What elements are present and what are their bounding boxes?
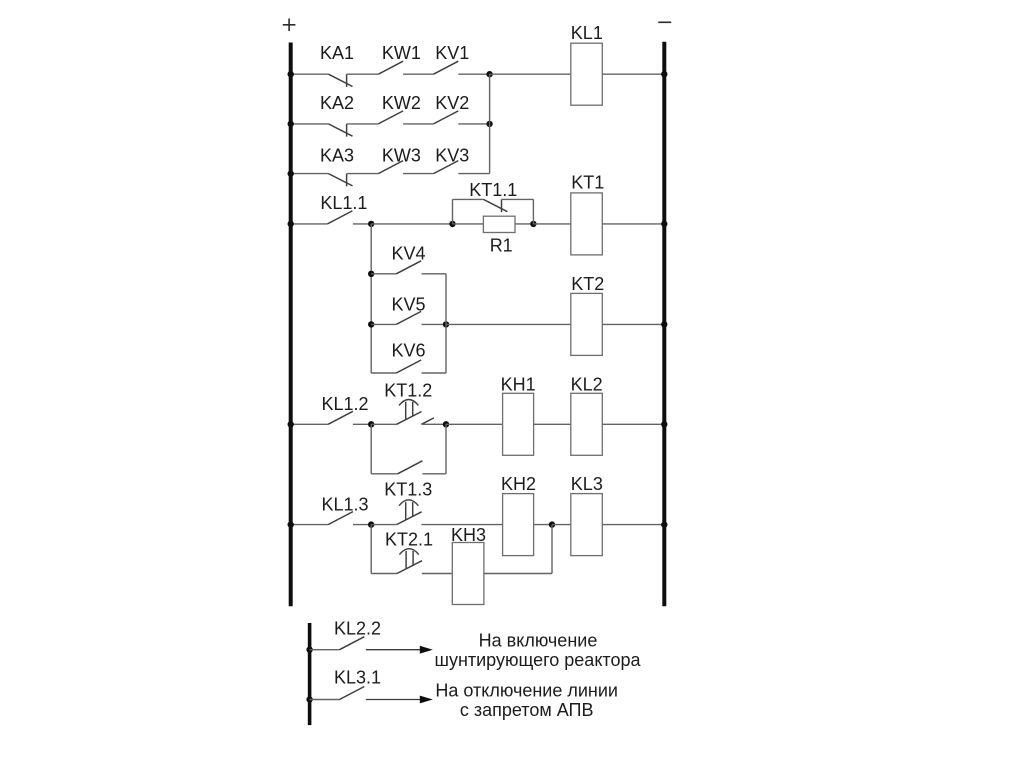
svg-text:KV3: KV3: [435, 146, 469, 166]
contact KV4: [396, 261, 421, 274]
wire KV6 left: [371, 372, 396, 374]
relay coil KT2: [571, 293, 603, 355]
wire KL1.3-node: [353, 524, 371, 526]
bypass wire left: [371, 473, 397, 475]
node row1: [486, 71, 492, 77]
contact KT1.2 (time delay): [397, 412, 422, 425]
relay coil KH2: [503, 494, 534, 556]
contact KL1.3: [328, 512, 353, 525]
wire row4 left: [291, 223, 328, 225]
contact KV5: [396, 311, 421, 324]
relay coil KL1: [571, 43, 603, 105]
svg-text:KW3: KW3: [382, 146, 421, 166]
bypass wire right: [422, 473, 446, 475]
svg-text:KH1: KH1: [501, 375, 536, 395]
branch wire left KT2.1: [371, 573, 397, 575]
branch top wire right: [502, 198, 534, 200]
branch top wire left: [453, 198, 484, 200]
node KT1 right bus: [661, 221, 667, 227]
contact bypass (unlabeled): [398, 461, 423, 474]
node KL1 right bus: [661, 71, 667, 77]
wire KH2-nodeG: [534, 524, 552, 526]
node KL2.2 bus: [306, 647, 312, 653]
wire row3 left: [291, 173, 329, 175]
svg-text:На включение: На включение: [479, 631, 598, 651]
svg-text:KA3: KA3: [320, 146, 354, 166]
contact KT2.1 (time delay): [397, 561, 422, 574]
svg-text:KT1.1: KT1.1: [469, 180, 517, 200]
wire KT2.1-KH3: [422, 573, 453, 575]
wire nodeD-KT1.2: [371, 423, 396, 425]
contact KA1: [329, 74, 353, 86]
wire KH3-riser: [484, 573, 552, 575]
relay coil KL2: [571, 393, 603, 455]
wire node-KL1: [490, 73, 571, 75]
wire KV5-KT2: [446, 323, 571, 325]
wire KV4 right: [422, 273, 447, 275]
svg-text:KH2: KH2: [501, 474, 536, 494]
node G row6: [549, 521, 555, 527]
wire nodeF-KT1.3: [371, 524, 396, 526]
relay coil KH1: [503, 393, 534, 455]
node row4 left bus: [288, 221, 294, 227]
node row3 left bus: [288, 170, 294, 176]
bypass riser left: [370, 424, 372, 474]
wire KL3-bus: [602, 524, 664, 526]
riser nodeA to KV6: [370, 224, 372, 373]
plus terminal: [283, 24, 296, 26]
svg-text:R1: R1: [490, 235, 513, 255]
wire KV1-node: [458, 73, 489, 75]
contact KL1.1: [328, 211, 353, 224]
wire row6 left: [291, 524, 328, 526]
contact KT1.1: [483, 199, 507, 211]
contact KW2: [378, 111, 403, 124]
node A row4: [368, 221, 374, 227]
wire KV5 left: [371, 323, 396, 325]
contact KL2.2: [340, 637, 365, 650]
svg-text:KT2.1: KT2.1: [385, 529, 433, 549]
svg-text:KV2: KV2: [435, 93, 469, 113]
svg-text:шунтирующего реактора: шунтирующего реактора: [435, 650, 642, 670]
wire KT1-bus: [602, 223, 664, 225]
wire row5 left: [291, 423, 328, 425]
relay coil KT1: [571, 193, 603, 255]
wire KV3-corner: [458, 173, 489, 175]
wire KL1.2-node: [353, 423, 371, 425]
contact KA3: [329, 174, 353, 186]
contact KW3: [378, 161, 403, 174]
wire KL2.2 left: [310, 649, 340, 651]
contact KT1.3 (time delay): [397, 512, 422, 525]
aux bus: [308, 623, 312, 725]
relay coil KL3: [571, 494, 603, 556]
svg-text:KV5: KV5: [392, 294, 426, 314]
wire KV4 left: [371, 273, 396, 275]
svg-text:KV4: KV4: [392, 244, 426, 264]
node row2 left bus: [288, 121, 294, 127]
wire KH1-KL2: [534, 423, 571, 425]
svg-text:KL2: KL2: [571, 375, 603, 395]
svg-text:KT1.3: KT1.3: [384, 480, 432, 500]
branch riser to nodeG: [551, 525, 553, 574]
wire nodeG-KL3: [552, 524, 571, 526]
wire KT1.2-nodeE: [421, 423, 446, 425]
node row1 left bus: [288, 71, 294, 77]
wire KA1-KW1: [347, 73, 379, 75]
branch riser nodeF-KT2.1: [370, 525, 372, 574]
wire KW1-KV1: [403, 73, 433, 75]
branch riser left KT1.1: [452, 199, 454, 224]
right bus −: [662, 42, 666, 607]
contact KW1: [378, 61, 403, 74]
svg-text:KV6: KV6: [392, 340, 426, 360]
arrow to line tripping: [366, 699, 422, 701]
svg-text:KL1: KL1: [571, 23, 603, 43]
wire KV2-node: [458, 123, 489, 125]
svg-text:KV1: KV1: [435, 43, 469, 63]
node E row5: [443, 421, 449, 427]
wire nodeA-nodeB: [371, 223, 452, 225]
node KV4 left: [368, 271, 374, 277]
wire nodeC-KT1: [533, 223, 570, 225]
svg-text:KH3: KH3: [451, 525, 486, 545]
relay coil KH3: [452, 543, 484, 605]
node row6 left bus: [288, 521, 294, 527]
minus terminal: [658, 21, 671, 23]
left bus +: [289, 43, 293, 607]
wire riser rows1-3: [489, 74, 491, 173]
contact KV1: [434, 61, 459, 74]
svg-text:с запретом АПВ: с запретом АПВ: [460, 700, 594, 720]
branch riser right KT1.1: [532, 199, 534, 224]
svg-text:KT1.2: KT1.2: [384, 381, 432, 401]
contact KV6: [396, 360, 421, 373]
node KV5 right: [443, 321, 449, 327]
wire KV5 right: [422, 323, 447, 325]
bypass riser right: [445, 424, 447, 474]
wire KL3.1 left: [310, 699, 340, 701]
svg-text:KT1: KT1: [571, 172, 604, 192]
svg-text:KA2: KA2: [320, 93, 354, 113]
wire KT2-bus: [602, 323, 664, 325]
wire row2 left: [291, 123, 329, 125]
svg-text:KL2.2: KL2.2: [334, 618, 381, 638]
wire KA3-KW3: [347, 173, 379, 175]
contact KA2: [329, 124, 353, 136]
wire KA2-KW2: [347, 123, 379, 125]
node KL3 right bus: [661, 521, 667, 527]
wire KL1-bus: [602, 73, 664, 75]
svg-text:KA1: KA1: [320, 43, 354, 63]
node row2: [486, 121, 492, 127]
node KL2 right bus: [661, 421, 667, 427]
riser KV4-KV6 right: [445, 274, 447, 373]
wire nodeE-KH1: [446, 423, 503, 425]
node KV5 left: [368, 321, 374, 327]
node F row6: [368, 521, 374, 527]
node B row4: [449, 221, 455, 227]
node KT2 right bus: [661, 321, 667, 327]
resistor R1: [483, 216, 515, 232]
contact KV2: [434, 111, 459, 124]
wire R1-nodeC: [515, 223, 533, 225]
svg-text:KW2: KW2: [382, 93, 421, 113]
contact KL1.2: [328, 411, 353, 424]
wire KL2-bus: [602, 423, 664, 425]
node KL3.1 bus: [306, 696, 312, 702]
wire KT1.3-KH2: [421, 524, 502, 526]
wire KW2-KV2: [403, 123, 433, 125]
wire KW3-KV3: [403, 173, 433, 175]
svg-text:KW1: KW1: [382, 43, 421, 63]
arrow to reactor switching: [366, 649, 422, 651]
wire KV6 right: [422, 372, 447, 374]
node D row5: [368, 421, 374, 427]
wire nodeB-R1: [453, 223, 484, 225]
svg-text:KL1.2: KL1.2: [322, 394, 369, 414]
node row5 left bus: [288, 421, 294, 427]
svg-text:KL1.3: KL1.3: [322, 494, 369, 514]
svg-text:KL1.1: KL1.1: [320, 193, 367, 213]
svg-text:На отключение линии: На отключение линии: [435, 681, 618, 701]
svg-text:KL3.1: KL3.1: [334, 667, 381, 687]
svg-text:KT2: KT2: [571, 274, 604, 294]
wire row1 left: [291, 73, 329, 75]
contact KV3: [434, 161, 459, 174]
wire KL1.1-node: [353, 223, 371, 225]
svg-text:KL3: KL3: [571, 474, 603, 494]
contact KL3.1: [340, 687, 365, 700]
node C row4: [530, 221, 536, 227]
